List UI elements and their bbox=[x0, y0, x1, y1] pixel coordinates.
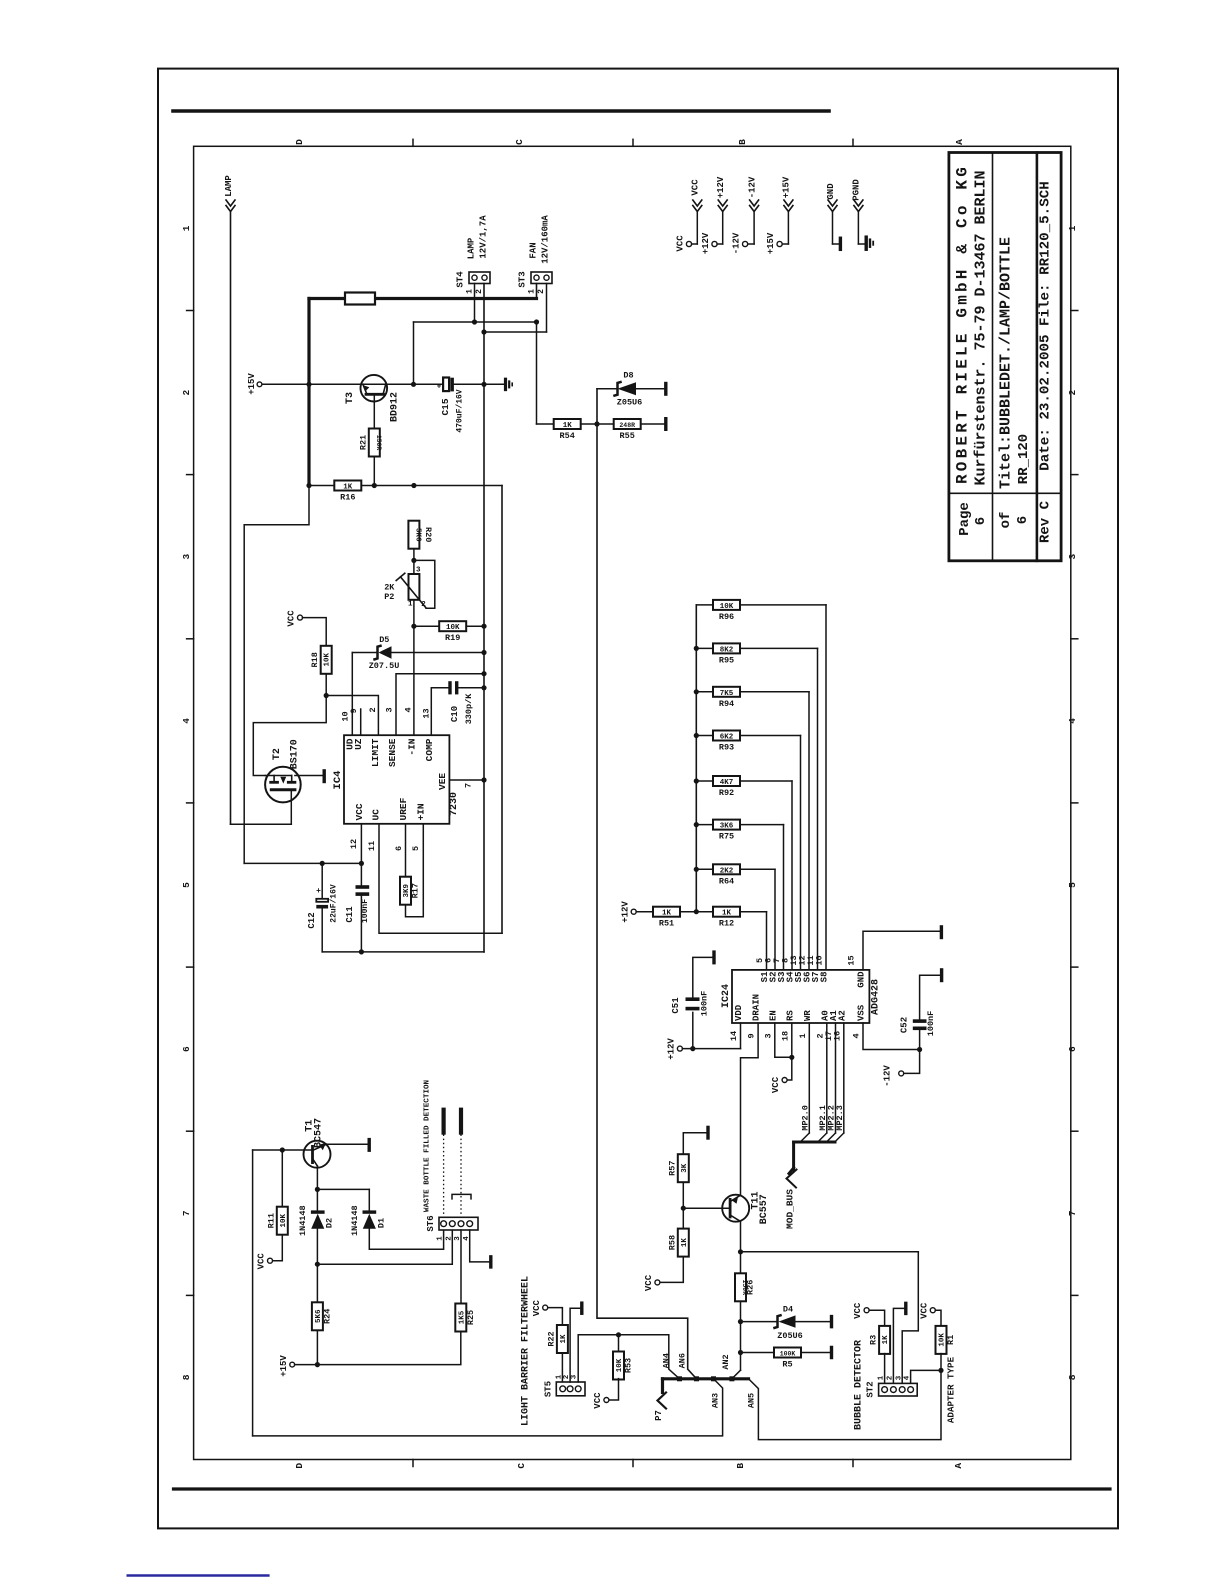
svg-text:-12V: -12V bbox=[732, 232, 742, 254]
terminal VCC at R22 bbox=[532, 1299, 548, 1316]
wire jog to IC4 VCC rail bbox=[244, 486, 309, 864]
svg-text:VEE: VEE bbox=[437, 773, 448, 790]
svg-text:7: 7 bbox=[181, 1210, 192, 1216]
IC24 pin names top bbox=[760, 971, 867, 988]
wire ST2.3 to T11 net bbox=[902, 1252, 918, 1384]
svg-text:D4: D4 bbox=[783, 1305, 793, 1315]
svg-text:5K6: 5K6 bbox=[413, 528, 421, 542]
wire ST4.2/ST3.2 net bbox=[481, 284, 546, 335]
svg-text:2: 2 bbox=[1067, 389, 1078, 395]
resistor R24 5K6 bbox=[312, 1302, 333, 1367]
svg-text:12V/160mA: 12V/160mA bbox=[541, 215, 551, 264]
wire VCC rail IC4 bbox=[244, 861, 364, 866]
resistor R75 3K6 bbox=[696, 820, 783, 970]
svg-text:-IN: -IN bbox=[406, 738, 417, 755]
svg-text:BS170: BS170 bbox=[290, 739, 301, 769]
svg-text:B: B bbox=[735, 1463, 746, 1469]
wire ST4.1 net bbox=[414, 284, 540, 385]
IC24 pin numbers bbox=[729, 955, 862, 1041]
svg-text:4: 4 bbox=[403, 707, 413, 712]
svg-text:Kurfürstenstr. 75-79 D-13467: Kurfürstenstr. 75-79 D-13467 BERLIN bbox=[973, 170, 990, 485]
svg-text:IC4: IC4 bbox=[332, 771, 344, 790]
wire R26 bottom bbox=[732, 1301, 743, 1379]
resistor R95 8K2 bbox=[696, 643, 817, 970]
svg-text:+15V: +15V bbox=[766, 232, 776, 254]
svg-text:R94: R94 bbox=[719, 699, 734, 709]
svg-text:MOD_BUS: MOD_BUS bbox=[785, 1189, 796, 1229]
svg-text:6K2: 6K2 bbox=[720, 734, 734, 742]
svg-text:A2: A2 bbox=[837, 1010, 847, 1021]
ground at R55 bbox=[664, 417, 667, 431]
svg-text:-12V: -12V bbox=[747, 176, 757, 198]
wire ladder bus bbox=[694, 605, 699, 914]
svg-text:R53: R53 bbox=[624, 1358, 634, 1373]
svg-text:8K2: 8K2 bbox=[720, 646, 734, 654]
connector ST3 bbox=[518, 215, 553, 294]
svg-text:RS: RS bbox=[785, 1010, 795, 1021]
svg-text:6: 6 bbox=[1015, 516, 1031, 524]
resistor R25 1K5 bbox=[455, 1230, 476, 1332]
svg-text:10K: 10K bbox=[324, 653, 332, 667]
svg-text:2: 2 bbox=[421, 601, 426, 609]
svg-text:+: + bbox=[316, 887, 321, 896]
svg-text:T2: T2 bbox=[272, 748, 283, 760]
wire vertical D8 feed bbox=[537, 322, 554, 424]
svg-text:+15V: +15V bbox=[247, 373, 257, 395]
blue margin mark bbox=[127, 1574, 270, 1577]
bottom rule line bbox=[174, 1487, 1111, 1490]
svg-text:C10: C10 bbox=[450, 706, 460, 722]
resistor R5 100K bbox=[741, 1346, 832, 1370]
svg-text:VCC: VCC bbox=[287, 610, 297, 627]
wire R21 bottom bbox=[372, 457, 377, 489]
svg-text:9: 9 bbox=[349, 708, 359, 713]
svg-text:1: 1 bbox=[408, 601, 413, 609]
svg-text:1K: 1K bbox=[563, 422, 573, 430]
ground at C15 bbox=[506, 378, 513, 392]
svg-text:11: 11 bbox=[367, 841, 377, 851]
svg-text:+12V: +12V bbox=[621, 901, 631, 923]
wire T11 emitter net bbox=[738, 1221, 918, 1273]
svg-text:3: 3 bbox=[1067, 554, 1078, 560]
svg-text:ST6: ST6 bbox=[426, 1215, 436, 1231]
svg-text:LIGHT BARRIER FILTERWHEEL: LIGHT BARRIER FILTERWHEEL bbox=[521, 1276, 532, 1426]
svg-text:Titel:BUBBLEDET./LAMP/BOTTLE: Titel:BUBBLEDET./LAMP/BOTTLE bbox=[998, 237, 1015, 489]
svg-text:15: 15 bbox=[847, 955, 857, 965]
svg-text:+12V: +12V bbox=[667, 1038, 677, 1060]
svg-text:R57: R57 bbox=[667, 1161, 677, 1176]
title text titel bbox=[998, 237, 1033, 489]
svg-text:ADG428: ADG428 bbox=[871, 979, 882, 1015]
svg-text:4: 4 bbox=[904, 1375, 912, 1380]
wire AN3 branch bbox=[253, 1379, 723, 1436]
ic IC4 7230 bbox=[332, 735, 460, 824]
svg-text:9: 9 bbox=[747, 1033, 757, 1038]
svg-text:GND: GND bbox=[857, 971, 867, 988]
terminal VCC at R1 bbox=[919, 1302, 935, 1319]
wire LAMP to T2 source bbox=[231, 823, 292, 825]
svg-text:UREF: UREF bbox=[398, 797, 409, 820]
resistor R3 1K bbox=[869, 1310, 891, 1383]
svg-text:100nF: 100nF bbox=[926, 1011, 936, 1037]
connector ST4 bbox=[456, 215, 491, 294]
svg-text:Date: 23.02.2005 File: RR120: Date: 23.02.2005 File: RR120_5.SCH bbox=[1038, 181, 1054, 470]
svg-text:14: 14 bbox=[729, 1031, 739, 1041]
resistor R16 1K bbox=[334, 481, 361, 491]
wire R54-R55 junction bbox=[581, 421, 664, 426]
svg-text:R92: R92 bbox=[719, 788, 734, 798]
svg-text:5: 5 bbox=[1067, 882, 1078, 888]
svg-text:470uF/16V: 470uF/16V bbox=[456, 389, 465, 432]
svg-text:2: 2 bbox=[887, 1375, 895, 1380]
diode D5 Z07.5U bbox=[352, 635, 486, 671]
wire AN5 branch bbox=[749, 1370, 942, 1439]
svg-text:2: 2 bbox=[537, 289, 546, 294]
schematic frame bbox=[194, 146, 1071, 1459]
diode D8 Z05U6 bbox=[597, 371, 664, 408]
terminal VCC at R3 bbox=[853, 1302, 869, 1319]
svg-text:100K: 100K bbox=[780, 1351, 796, 1358]
potentiometer P2 2K bbox=[384, 549, 435, 609]
svg-text:VCC: VCC bbox=[676, 235, 686, 252]
fuse F1 bbox=[345, 293, 375, 305]
svg-text:LIMIT: LIMIT bbox=[370, 738, 381, 767]
frame zone numbers left bbox=[181, 225, 192, 1380]
svg-text:VDD: VDD bbox=[734, 1004, 744, 1021]
svg-text:12V/1,7A: 12V/1,7A bbox=[479, 215, 489, 259]
terminal +12V at IC24 bbox=[667, 1038, 683, 1060]
svg-text:AN3: AN3 bbox=[710, 1393, 720, 1408]
resistor R20 5K6 bbox=[408, 521, 433, 549]
svg-text:18: 18 bbox=[780, 1031, 790, 1041]
svg-text:WASTE BOTTLE FILLED DETECTION: WASTE BOTTLE FILLED DETECTION bbox=[424, 1079, 432, 1212]
svg-text:R54: R54 bbox=[560, 431, 575, 441]
svg-text:AN5: AN5 bbox=[747, 1393, 757, 1408]
wire LAMP vertical bbox=[230, 212, 232, 824]
svg-text:1N4148: 1N4148 bbox=[298, 1205, 308, 1236]
svg-text:VCC: VCC bbox=[354, 803, 365, 820]
svg-text:MP2.3: MP2.3 bbox=[835, 1105, 845, 1131]
svg-text:R19: R19 bbox=[445, 633, 460, 643]
wire ST5.2 to ground bbox=[570, 1301, 582, 1382]
wire R16 line bbox=[306, 483, 502, 488]
svg-text:ST3: ST3 bbox=[518, 271, 528, 287]
svg-text:A: A bbox=[953, 1463, 964, 1469]
frame zone letters bottom bbox=[294, 1463, 964, 1469]
wire SENSE to bus bbox=[396, 671, 487, 735]
resistor R57 3K bbox=[667, 1126, 708, 1211]
svg-text:Z07.5U: Z07.5U bbox=[369, 661, 400, 671]
svg-text:R75: R75 bbox=[719, 832, 734, 842]
svg-text:6: 6 bbox=[1067, 1046, 1078, 1052]
svg-text:WR: WR bbox=[803, 1010, 813, 1021]
diode D4 Z05U6 bbox=[741, 1305, 832, 1342]
svg-text:Rev C: Rev C bbox=[1038, 500, 1054, 543]
wire lamp supply thick bbox=[309, 284, 537, 486]
ground at T1 bbox=[368, 1138, 371, 1152]
svg-text:1N4148: 1N4148 bbox=[350, 1205, 360, 1236]
svg-text:2: 2 bbox=[181, 389, 192, 395]
ic IC24 ADG428 bbox=[721, 970, 882, 1023]
svg-text:2: 2 bbox=[475, 289, 484, 294]
svg-text:R17: R17 bbox=[411, 883, 421, 898]
svg-text:AN6: AN6 bbox=[677, 1353, 687, 1368]
svg-text:3: 3 bbox=[763, 1033, 773, 1038]
resistor R22 1K bbox=[546, 1308, 568, 1382]
capacitor C52 100nF bbox=[900, 968, 942, 1049]
resistor R54 1K bbox=[554, 419, 581, 441]
svg-text:FAN: FAN bbox=[529, 242, 539, 258]
terminal +15V bottom bbox=[279, 1355, 295, 1377]
svg-text:D: D bbox=[294, 1463, 305, 1469]
svg-text:IC24: IC24 bbox=[721, 984, 732, 1008]
svg-text:1K: 1K bbox=[662, 910, 672, 918]
resistor R53 10K bbox=[593, 1335, 634, 1409]
wire +15V rail bbox=[262, 382, 504, 387]
svg-text:1K: 1K bbox=[722, 910, 732, 918]
connector ST6 bbox=[426, 1215, 478, 1240]
diode D2 1N4148 bbox=[298, 1187, 335, 1302]
svg-text:248R: 248R bbox=[619, 422, 635, 429]
svg-text:100nF: 100nF bbox=[361, 899, 370, 923]
svg-text:1K: 1K bbox=[560, 1334, 568, 1344]
IC24 pin names bottom bbox=[734, 994, 867, 1021]
diode D1 1N4148 bbox=[317, 1189, 443, 1249]
svg-text:+: + bbox=[437, 383, 442, 392]
wire VEE bbox=[449, 777, 486, 782]
svg-text:5: 5 bbox=[411, 846, 421, 851]
svg-text:VCC: VCC bbox=[691, 179, 701, 196]
svg-text:+15V: +15V bbox=[782, 176, 792, 198]
svg-text:2K: 2K bbox=[384, 583, 395, 593]
svg-text:ST4: ST4 bbox=[456, 271, 466, 288]
svg-text:4: 4 bbox=[181, 718, 192, 724]
resistor R17 3K9 bbox=[400, 824, 423, 917]
capacitor C12 22uF/16V bbox=[307, 864, 339, 952]
resistor R1 10K bbox=[935, 1310, 956, 1373]
resistor R19 10K bbox=[414, 621, 487, 643]
resistor R96 10K bbox=[696, 600, 826, 970]
wire R18 bottom to LIMIT and gate bbox=[253, 674, 378, 776]
svg-text:ST5: ST5 bbox=[543, 1381, 553, 1397]
wire ST2.4 bbox=[911, 1370, 941, 1383]
svg-text:+12V: +12V bbox=[716, 176, 726, 198]
svg-text:1: 1 bbox=[466, 289, 475, 294]
svg-text:R3: R3 bbox=[869, 1335, 879, 1345]
resistor R26 150R bbox=[735, 1273, 756, 1301]
svg-text:10K: 10K bbox=[720, 603, 734, 611]
svg-text:LAMP: LAMP bbox=[467, 237, 477, 259]
svg-text:3: 3 bbox=[181, 554, 192, 560]
resistor R11 10K bbox=[256, 1150, 287, 1269]
svg-text:VCC: VCC bbox=[593, 1392, 603, 1409]
svg-text:MP2.0: MP2.0 bbox=[800, 1105, 810, 1131]
svg-text:R1: R1 bbox=[946, 1335, 956, 1345]
svg-text:7: 7 bbox=[1067, 1210, 1078, 1216]
svg-text:R25: R25 bbox=[466, 1310, 476, 1325]
svg-text:BC547: BC547 bbox=[314, 1118, 325, 1148]
svg-text:10K: 10K bbox=[446, 624, 460, 632]
svg-text:D8: D8 bbox=[623, 371, 633, 381]
svg-text:B: B bbox=[737, 139, 748, 145]
wire cap bottom rail bbox=[322, 949, 484, 954]
resistor R21 150R bbox=[358, 429, 382, 457]
svg-text:C11: C11 bbox=[345, 906, 355, 923]
svg-text:1: 1 bbox=[798, 1033, 808, 1038]
svg-text:3: 3 bbox=[385, 707, 395, 712]
svg-text:6: 6 bbox=[181, 1046, 192, 1052]
svg-text:8: 8 bbox=[1067, 1374, 1078, 1380]
terminal +15V bbox=[247, 373, 262, 395]
svg-text:C51: C51 bbox=[671, 997, 681, 1014]
svg-text:R5: R5 bbox=[782, 1360, 792, 1370]
svg-text:R93: R93 bbox=[719, 743, 734, 753]
svg-text:1: 1 bbox=[1067, 225, 1078, 231]
wire UC loop vertical bbox=[379, 486, 502, 934]
wire IC24 GND pin15 bbox=[863, 925, 941, 970]
wire DRAIN to T11 bbox=[741, 1023, 759, 1195]
wire P2 to -IN bbox=[411, 600, 416, 735]
svg-text:4K7: 4K7 bbox=[720, 779, 734, 787]
svg-text:R22: R22 bbox=[546, 1331, 556, 1346]
svg-text:8: 8 bbox=[181, 1374, 192, 1380]
wire ST2.2 to ground bbox=[893, 1302, 905, 1384]
wire analog bus thick bbox=[663, 1376, 749, 1392]
svg-text:2: 2 bbox=[445, 1236, 453, 1241]
svg-text:BUBBLE DETECTOR: BUBBLE DETECTOR bbox=[854, 1340, 865, 1430]
svg-text:5: 5 bbox=[181, 882, 192, 888]
resistor R64 2K2 bbox=[696, 864, 775, 970]
frame zone letters top bbox=[294, 139, 965, 145]
resistor R18 10K bbox=[303, 618, 332, 674]
svg-text:VCC: VCC bbox=[853, 1302, 863, 1319]
svg-text:2: 2 bbox=[368, 707, 378, 712]
wire EN/RS to VCC bbox=[771, 1023, 794, 1093]
svg-text:P2: P2 bbox=[384, 592, 394, 602]
terminal VCC at R18 bbox=[287, 610, 303, 627]
svg-text:VCC: VCC bbox=[771, 1076, 781, 1093]
svg-text:R12: R12 bbox=[719, 919, 734, 929]
svg-text:3: 3 bbox=[416, 567, 421, 575]
svg-text:16: 16 bbox=[832, 1031, 842, 1041]
resistor R12 1K bbox=[696, 907, 766, 970]
svg-text:PGND: PGND bbox=[852, 179, 862, 201]
wire VDD bbox=[682, 1023, 740, 1051]
svg-text:C12: C12 bbox=[307, 912, 317, 928]
svg-text:-12V: -12V bbox=[883, 1065, 893, 1087]
svg-text:T3: T3 bbox=[345, 392, 356, 404]
svg-text:12: 12 bbox=[349, 839, 359, 849]
svg-text:6: 6 bbox=[394, 846, 404, 851]
svg-text:COMP: COMP bbox=[424, 738, 435, 761]
svg-text:3K6: 3K6 bbox=[720, 823, 734, 831]
connector ST2 bbox=[866, 1375, 918, 1397]
svg-text:UC: UC bbox=[370, 809, 381, 821]
svg-text:R58: R58 bbox=[667, 1235, 677, 1250]
capacitor C51 100nF bbox=[671, 950, 714, 1048]
outer page border bbox=[158, 69, 1118, 1529]
svg-text:ROBERT RIELE GmbH & Co KG: ROBERT RIELE GmbH & Co KG bbox=[954, 164, 972, 484]
ground at D8 bbox=[664, 382, 667, 396]
svg-text:RR_120: RR_120 bbox=[1016, 434, 1032, 484]
transistor T3 BD912 bbox=[345, 375, 401, 428]
svg-text:10: 10 bbox=[815, 955, 825, 965]
IC4 pin names bottom bbox=[354, 773, 448, 821]
terminal -12V bbox=[883, 1050, 920, 1087]
svg-text:BC557: BC557 bbox=[759, 1194, 770, 1224]
net arrow MOD_BUS bbox=[785, 1168, 797, 1229]
top rule line bbox=[173, 109, 829, 113]
svg-text:D1: D1 bbox=[377, 1218, 387, 1228]
svg-text:4: 4 bbox=[852, 1033, 862, 1038]
svg-text:D: D bbox=[294, 139, 305, 145]
wire T1 base net bbox=[253, 1147, 313, 1436]
svg-text:VCC: VCC bbox=[532, 1299, 542, 1316]
svg-text:R95: R95 bbox=[719, 655, 734, 665]
svg-text:R11: R11 bbox=[266, 1213, 276, 1228]
svg-text:ADAPTER TYPE: ADAPTER TYPE bbox=[945, 1356, 956, 1423]
svg-text:GND: GND bbox=[826, 183, 836, 200]
svg-text:R20: R20 bbox=[423, 527, 433, 542]
svg-text:100nF: 100nF bbox=[699, 991, 709, 1017]
svg-text:3: 3 bbox=[571, 1374, 579, 1379]
svg-text:13: 13 bbox=[422, 708, 432, 718]
title text page bbox=[957, 502, 1031, 536]
svg-text:Z05U6: Z05U6 bbox=[777, 1331, 803, 1341]
svg-text:VCC: VCC bbox=[256, 1253, 266, 1270]
svg-text:VSS: VSS bbox=[857, 1004, 867, 1021]
svg-text:AN2: AN2 bbox=[721, 1354, 731, 1369]
svg-text:7230: 7230 bbox=[449, 792, 460, 816]
svg-text:1K: 1K bbox=[343, 484, 353, 492]
svg-text:R51: R51 bbox=[659, 919, 674, 929]
svg-text:1K: 1K bbox=[681, 1238, 689, 1248]
svg-text:of: of bbox=[998, 512, 1014, 529]
svg-text:+IN: +IN bbox=[416, 803, 427, 820]
capacitor C15 bbox=[437, 378, 465, 433]
transistor T1 BC547 bbox=[304, 1118, 368, 1189]
svg-text:BD912: BD912 bbox=[390, 392, 401, 422]
svg-text:+15V: +15V bbox=[279, 1355, 289, 1377]
svg-text:D2: D2 bbox=[325, 1218, 335, 1228]
power flag VCC bbox=[676, 179, 702, 252]
resistor R94 7K5 bbox=[696, 687, 809, 970]
svg-text:R64: R64 bbox=[719, 876, 734, 886]
capacitor C11 100nF bbox=[345, 824, 370, 952]
svg-text:SENSE: SENSE bbox=[387, 738, 398, 767]
svg-text:VCC: VCC bbox=[919, 1302, 929, 1319]
svg-text:R55: R55 bbox=[620, 431, 635, 441]
svg-text:R16: R16 bbox=[340, 493, 355, 503]
net flag LAMP bbox=[224, 175, 235, 212]
power flag -12V bbox=[732, 176, 759, 254]
svg-text:1: 1 bbox=[181, 225, 192, 231]
svg-text:10K: 10K bbox=[280, 1213, 288, 1227]
frame zone ticks bbox=[187, 139, 1078, 1466]
IC4 pin names top bbox=[344, 738, 435, 767]
transistor T11 BC557 bbox=[683, 1191, 770, 1224]
title text company bbox=[954, 164, 990, 486]
svg-text:LAMP: LAMP bbox=[224, 175, 234, 197]
labels MP2.x bbox=[800, 1105, 845, 1131]
svg-text:Z05U6: Z05U6 bbox=[617, 398, 643, 408]
resistor R51 1K bbox=[621, 901, 697, 929]
svg-text:R18: R18 bbox=[310, 652, 320, 667]
wire MP2 bus bbox=[794, 1023, 844, 1170]
svg-text:VCC: VCC bbox=[644, 1274, 654, 1291]
wire VSS / C52 / -12V bbox=[863, 1023, 922, 1052]
resistor R93 6K2 bbox=[696, 731, 800, 970]
